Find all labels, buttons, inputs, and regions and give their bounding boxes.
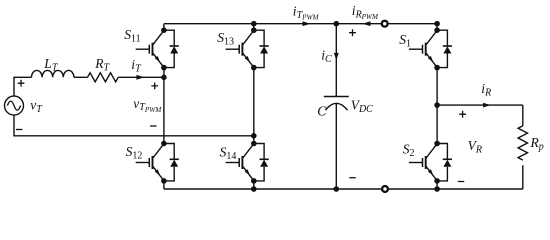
- polarity - of VR: [458, 181, 464, 183]
- node: leg3 bottom on rail: [434, 186, 440, 192]
- wire: source bottom return to leg 2: [14, 115, 254, 136]
- resistor RT: [88, 73, 119, 82]
- polarity - of DC link: [349, 177, 355, 179]
- wire: source top to inductor: [14, 77, 32, 96]
- current arrow iTPWM: [303, 21, 311, 26]
- wire: leg 2 (S13/S14) vertical: [253, 24, 255, 189]
- current arrow iT: [136, 75, 144, 80]
- transistor S13 (IGBT with antiparallel diode): [226, 27, 269, 70]
- wire: capacitor branch lower: [335, 103, 337, 189]
- wire: inductor to resistor: [74, 76, 88, 78]
- terminal: top connector circle: [382, 21, 388, 27]
- node: capacitor top junction: [334, 21, 340, 27]
- node: leg2 bottom on rail: [251, 186, 257, 192]
- polarity - of source: [16, 129, 22, 131]
- node: leg3 top terminal: [434, 21, 440, 27]
- transistor S12 (IGBT with antiparallel diode): [136, 141, 179, 184]
- current arrow iR: [483, 103, 491, 108]
- polarity - of vTPWM: [150, 125, 156, 127]
- capacitor C (polarized): [324, 97, 349, 111]
- polarity + of VR: [459, 111, 466, 118]
- current arrow iC (down): [334, 53, 339, 61]
- node: leg3 midpoint junction: [434, 102, 440, 108]
- polarity + of vTPWM: [151, 83, 158, 90]
- wire: load branch top: [522, 105, 524, 126]
- node: iT junction on leg 1: [161, 75, 167, 81]
- wire: leg 1 (S11/S12) vertical: [163, 24, 165, 189]
- inductor LT: [32, 70, 74, 77]
- polarity + of source: [18, 80, 25, 87]
- svg-text:C: C: [317, 103, 327, 118]
- terminal: bottom connector circle: [382, 186, 388, 192]
- node: capacitor bottom junction: [334, 186, 340, 192]
- wire: leg 3 (S1/S2) vertical: [436, 24, 438, 189]
- wire: midpoint to load with iR arrow: [437, 104, 523, 106]
- node: return junction on leg 2: [251, 133, 257, 139]
- polarity + of DC link: [349, 29, 356, 36]
- wire: capacitor branch upper with iC arrow: [335, 24, 337, 97]
- wire: bottom DC rail: [164, 188, 523, 190]
- node: leg2 top on rail: [251, 21, 257, 27]
- wire: resistor to bridge leg 1 with iT arrow: [118, 76, 164, 78]
- source vT (AC voltage source): [5, 96, 24, 115]
- wire: load branch bottom: [522, 165, 524, 189]
- transistor S14 (IGBT with antiparallel diode): [226, 141, 269, 184]
- current arrow iRPWM (pointing left): [362, 21, 370, 26]
- transistor S1 (IGBT with antiparallel diode): [409, 27, 452, 70]
- transistor S11 (IGBT with antiparallel diode): [136, 27, 179, 70]
- wire: top DC rail: [164, 23, 437, 25]
- transistor S2 (IGBT with antiparallel diode): [409, 141, 452, 184]
- resistor Rp: [518, 126, 527, 160]
